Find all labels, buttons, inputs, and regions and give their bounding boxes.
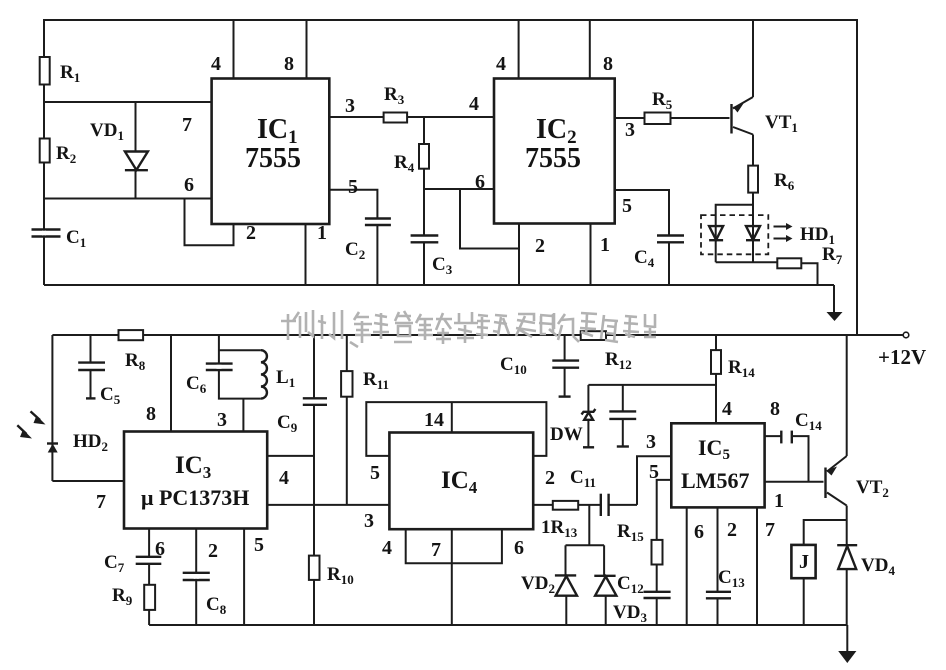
svg-text:6: 6: [514, 537, 524, 559]
svg-text:2: 2: [545, 467, 555, 489]
wire IC2 pin3: [615, 118, 730, 141]
op-amp U5 : IC5 LM567 box: [671, 423, 764, 507]
wire IC2 pin4 top: [496, 20, 519, 79]
svg-text:14: 14: [424, 409, 444, 431]
resistor R2: [40, 139, 77, 167]
diode VD3: [594, 545, 647, 625]
relay J: [791, 520, 846, 625]
wire IC4 pin14 hook to pin5 and pin2: [366, 402, 555, 489]
svg-text:2: 2: [727, 519, 737, 541]
capacitor C11: [570, 467, 637, 516]
wire IC3 pin8: [146, 335, 171, 432]
resistor R9: [112, 585, 155, 625]
svg-text:5: 5: [649, 461, 659, 483]
wire IC1 pin2 hook: [185, 199, 257, 246]
capacitor C2: [345, 219, 391, 286]
wire IC5 pin1: [765, 482, 824, 512]
svg-text:8: 8: [284, 53, 294, 75]
svg-text:3: 3: [646, 431, 656, 453]
svg-text:8: 8: [603, 53, 613, 75]
resistor R1: [40, 57, 81, 85]
diode VD4: [837, 545, 895, 625]
svg-text:5: 5: [348, 176, 358, 198]
capacitor C13: [706, 567, 745, 625]
wire IC3 pin2: [196, 529, 218, 626]
svg-text:3: 3: [217, 409, 227, 431]
svg-text:7: 7: [182, 114, 192, 136]
resistor R5: [645, 89, 673, 124]
svg-text:5: 5: [254, 534, 264, 556]
wire IC5 pin6: [687, 507, 704, 625]
ground bottom-section: [838, 625, 856, 663]
wire IC3 pin5: [244, 529, 264, 626]
wire IC1 pin6: [44, 198, 212, 200]
wire IC4 pin7: [451, 529, 453, 625]
pin label 7 IC1: [182, 114, 192, 136]
svg-text:7555: 7555: [525, 143, 581, 174]
wire IC4 pin4 pin6 hook: [382, 529, 524, 563]
capacitor C1: [32, 227, 87, 250]
svg-text:6: 6: [694, 521, 704, 543]
svg-text:7555: 7555: [245, 143, 301, 174]
wire +12V supply rail: [52, 332, 926, 369]
capacitor C4: [634, 236, 684, 286]
resistor R3: [384, 84, 408, 123]
svg-text:3: 3: [625, 119, 635, 141]
svg-text:2: 2: [535, 235, 545, 257]
svg-text:4: 4: [211, 53, 221, 75]
op-amp U1 : IC1 7555 box: [212, 79, 330, 225]
wire IC3 pin3: [217, 399, 243, 432]
optocoupler HD1 emitter pair: [701, 205, 835, 263]
photodiode HD2: [47, 431, 108, 454]
light arrow 2 at HD2: [17, 425, 32, 438]
wire IC5 pin7: [757, 507, 775, 625]
svg-text:1: 1: [317, 222, 327, 244]
wire left rail bottom section: [51, 335, 53, 481]
svg-text:DW: DW: [550, 424, 583, 445]
capacitor C14: [765, 398, 823, 482]
svg-text:μ PC1373H: μ PC1373H: [141, 485, 249, 510]
capacitor at DW: [609, 385, 636, 447]
svg-text:1: 1: [600, 234, 610, 256]
svg-text:1: 1: [774, 490, 784, 512]
svg-text:4: 4: [722, 398, 732, 420]
svg-text:2: 2: [208, 540, 218, 562]
svg-text:4: 4: [279, 467, 289, 489]
wire IC1 pin3 to IC2 pin4: [329, 93, 494, 117]
wire IC3 pin4 tab: [267, 456, 314, 489]
svg-text:2: 2: [246, 222, 256, 244]
wire IC5 pin2: [718, 507, 738, 591]
svg-text:7: 7: [431, 539, 441, 561]
svg-text:7: 7: [765, 519, 775, 541]
op-amp U3 : IC3 uPC1373H box: [124, 432, 267, 529]
resistor R4: [394, 117, 429, 235]
watermark: [281, 310, 656, 347]
svg-text:LM567: LM567: [681, 468, 749, 493]
wire IC2 pin1: [591, 224, 611, 286]
svg-text:4: 4: [496, 53, 506, 75]
svg-text:J: J: [799, 551, 809, 573]
wire top supply rail: [44, 20, 857, 335]
light arrow 1 at HD2: [31, 411, 46, 424]
svg-text:8: 8: [770, 398, 780, 420]
capacitor C3: [411, 236, 453, 286]
capacitor C9: [277, 335, 327, 435]
wire IC3 pin7: [52, 481, 124, 513]
transistor VT2: [826, 335, 889, 545]
resistor R15: [617, 521, 663, 592]
wire IC5 pin5: [649, 461, 671, 540]
wire IC1 pin5: [329, 176, 377, 219]
svg-text:7: 7: [96, 491, 106, 513]
capacitor C5: [78, 335, 121, 407]
svg-text:4: 4: [469, 93, 479, 115]
svg-text:3: 3: [345, 95, 355, 117]
op-amp U4 : IC4 box: [389, 433, 533, 530]
wire IC2 pin5: [615, 190, 669, 236]
wire bottom ground rail: [149, 624, 847, 626]
resistor R12: [581, 331, 632, 372]
resistor R11: [341, 335, 389, 505]
wire zener node: [588, 384, 716, 386]
diode VD1: [90, 102, 148, 199]
wire IC1 pin7: [44, 101, 212, 103]
op-amp U2 : IC2 7555 box: [494, 79, 615, 224]
svg-text:5: 5: [622, 195, 632, 217]
wire bottom rail of top section: [44, 284, 834, 286]
svg-text:+12V: +12V: [878, 345, 926, 369]
diode VD2: [521, 545, 577, 625]
wire IC3 pin6: [149, 529, 165, 561]
wire IC2 pin8 top: [590, 20, 613, 79]
ground top-section: [827, 285, 843, 321]
wire IC1 pin1: [306, 222, 328, 285]
zener DW: [550, 385, 595, 447]
resistor R7: [777, 244, 842, 285]
wire IC1 pin4: [211, 20, 234, 79]
LC tank C6 L1: [186, 335, 295, 399]
capacitor C8: [183, 573, 227, 617]
wire R4 to IC2 pin6: [424, 171, 494, 193]
resistor R6: [748, 166, 795, 205]
svg-text:6: 6: [475, 171, 485, 193]
svg-text:3: 3: [364, 510, 374, 532]
wire IC2 pin2 hook: [460, 189, 545, 285]
pin label 6 IC1: [184, 174, 194, 196]
resistor R14: [711, 335, 755, 423]
resistor R10: [309, 405, 354, 625]
transistor VT1: [732, 20, 798, 166]
wire diode pair node: [566, 505, 605, 545]
wire IC1 pin8: [284, 20, 307, 79]
resistor R8: [119, 330, 146, 373]
capacitor C12: [617, 573, 671, 625]
wire IC3 pin4 to IC4 pin3: [267, 505, 389, 532]
capacitor C10: [500, 335, 579, 397]
svg-text:5: 5: [370, 462, 380, 484]
svg-text:4: 4: [382, 537, 392, 559]
resistor R13: [533, 501, 600, 540]
svg-text:8: 8: [146, 403, 156, 425]
capacitor C7: [104, 552, 161, 585]
svg-text:6: 6: [184, 174, 194, 196]
wire IC5 pin3: [637, 431, 671, 505]
